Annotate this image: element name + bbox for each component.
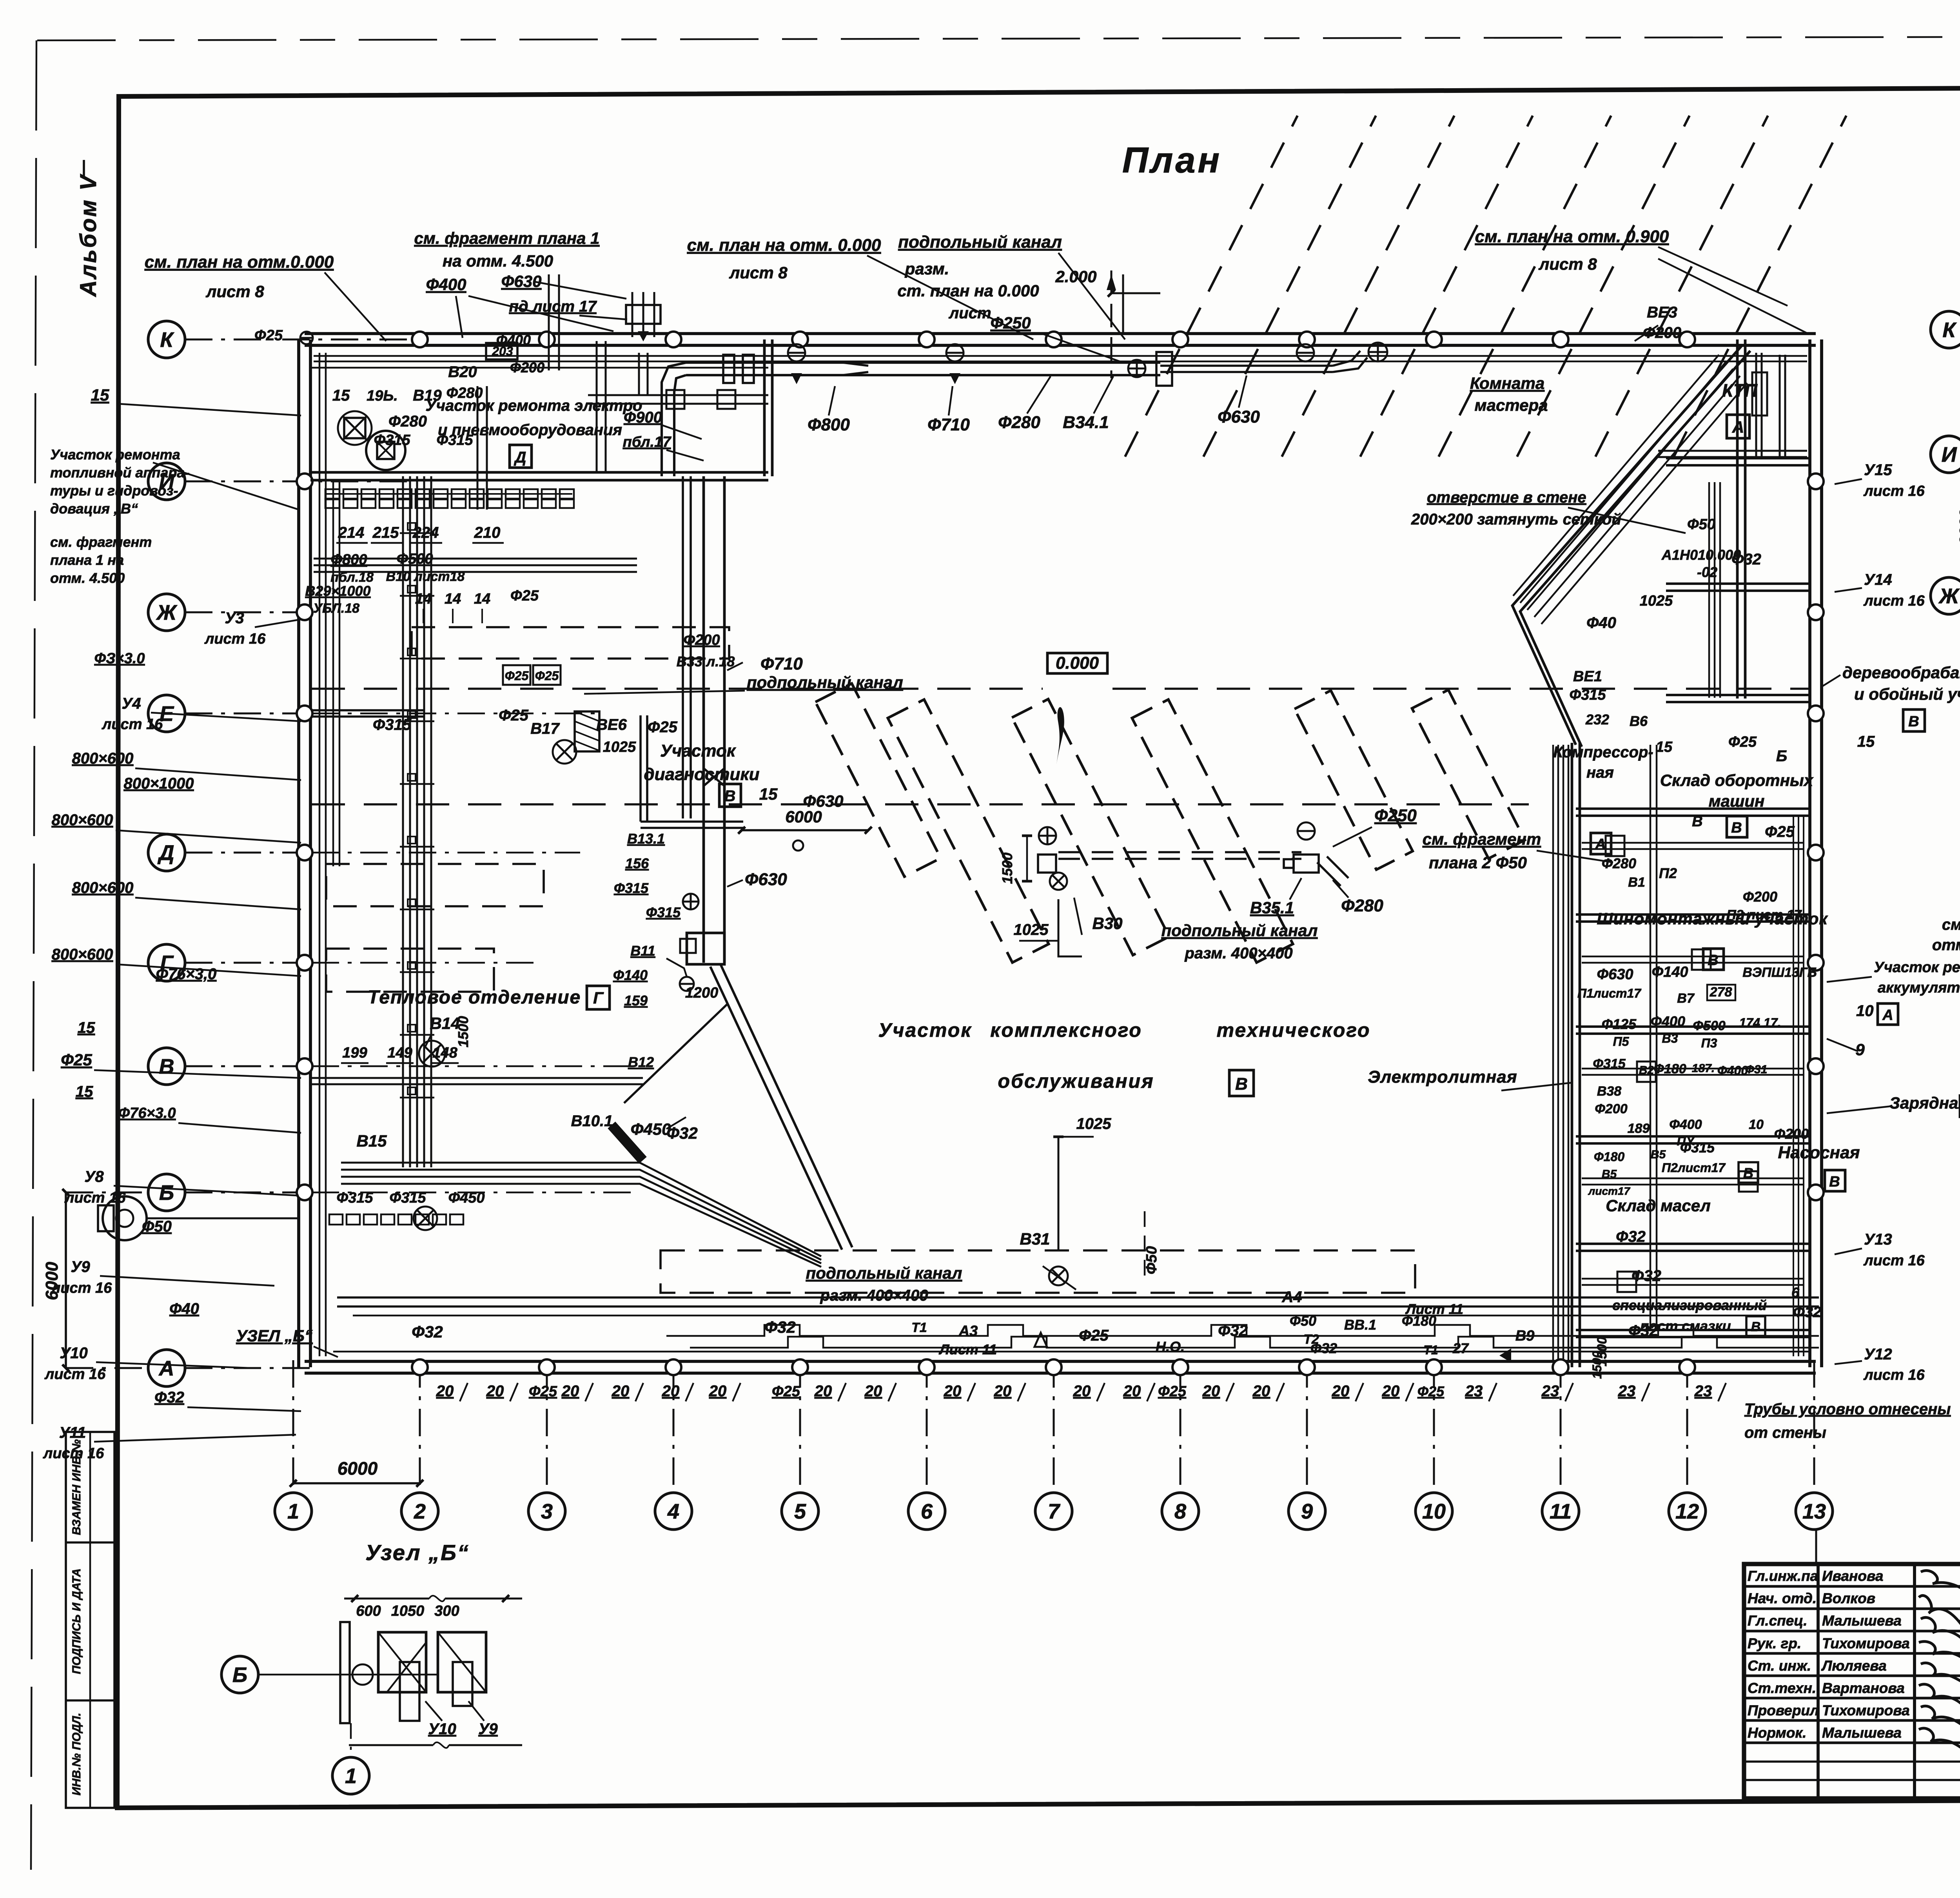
svg-text:В31: В31 [1020, 1230, 1050, 1248]
svg-text:У9: У9 [478, 1720, 498, 1738]
svg-text:2.000: 2.000 [1055, 267, 1096, 286]
svg-text:10: 10 [1422, 1500, 1446, 1523]
svg-text:Ф25: Ф25 [648, 719, 677, 736]
svg-text:Ф180: Ф180 [1594, 1150, 1625, 1164]
svg-text:подпольный канал: подпольный канал [806, 1264, 962, 1282]
svg-text:лист 16: лист 16 [44, 1366, 106, 1383]
svg-text:Ф140: Ф140 [1651, 964, 1688, 980]
svg-text:Ф315: Ф315 [373, 716, 412, 733]
svg-text:13: 13 [1802, 1500, 1826, 1523]
svg-text:лист: лист [948, 305, 991, 322]
svg-text:Б: Б [1776, 748, 1787, 765]
svg-text:20: 20 [1073, 1383, 1091, 1400]
svg-text:Ф50: Ф50 [1290, 1313, 1316, 1329]
svg-text:Ф25: Ф25 [535, 669, 559, 683]
svg-text:11: 11 [1550, 1500, 1572, 1523]
svg-text:6000: 6000 [785, 807, 822, 826]
svg-text:9: 9 [1855, 1040, 1865, 1059]
svg-text:специализированный: специализированный [1612, 1297, 1767, 1313]
svg-text:П2 лист 17: П2 лист 17 [1726, 907, 1802, 922]
svg-text:Б: Б [232, 1663, 247, 1687]
svg-text:Ф800: Ф800 [808, 415, 850, 434]
svg-text:Ф400: Ф400 [1717, 1063, 1748, 1078]
svg-text:Гл.инж.па: Гл.инж.па [1748, 1568, 1818, 1584]
svg-text:лист17: лист17 [1588, 1185, 1631, 1197]
svg-text:лист 16: лист 16 [1863, 1367, 1925, 1383]
svg-text:лист 8: лист 8 [1538, 255, 1597, 273]
svg-text:А: А [158, 1357, 174, 1380]
svg-text:Ф400: Ф400 [1669, 1117, 1702, 1132]
svg-text:В11: В11 [630, 943, 655, 959]
svg-text:В38: В38 [1597, 1084, 1621, 1099]
svg-text:В: В [1731, 820, 1742, 836]
svg-text:Ф630: Ф630 [745, 870, 787, 889]
svg-text:см. фрагмент: см. фрагмент [1423, 830, 1541, 848]
svg-text:-02: -02 [1697, 564, 1717, 580]
svg-text:Тепловое отделение: Тепловое отделение [368, 987, 581, 1008]
svg-text:УЗЕЛ „Б“: УЗЕЛ „Б“ [236, 1326, 313, 1345]
svg-text:Малышева: Малышева [1822, 1613, 1902, 1629]
svg-text:лист 16: лист 16 [1863, 1252, 1925, 1269]
svg-text:У9: У9 [71, 1258, 90, 1276]
svg-text:300: 300 [434, 1603, 459, 1619]
svg-text:20: 20 [561, 1383, 579, 1400]
svg-text:У15: У15 [1864, 461, 1892, 479]
svg-text:214: 214 [338, 524, 365, 541]
svg-text:Ф400: Ф400 [1651, 1013, 1685, 1029]
svg-text:Ф900: Ф900 [624, 409, 662, 426]
svg-text:П2: П2 [1659, 865, 1677, 881]
svg-text:деревообрабатывающий: деревообрабатывающий [1842, 663, 1960, 682]
svg-text:Компрессор-: Компрессор- [1553, 744, 1653, 761]
svg-text:1025: 1025 [603, 739, 636, 755]
svg-text:подпольный канал: подпольный канал [747, 673, 903, 691]
svg-text:В: В [1235, 1074, 1248, 1094]
svg-text:20: 20 [486, 1383, 504, 1400]
svg-text:Ф400: Ф400 [426, 275, 466, 294]
svg-text:Насосная: Насосная [1778, 1143, 1860, 1162]
svg-text:159: 159 [624, 993, 648, 1009]
svg-text:диагностики: диагностики [644, 765, 759, 784]
svg-text:В19: В19 [413, 387, 442, 404]
svg-text:ПОДПИСЬ И ДАТА: ПОДПИСЬ И ДАТА [70, 1568, 83, 1674]
svg-text:В13.1: В13.1 [627, 831, 665, 847]
svg-text:Б: Б [159, 1181, 174, 1205]
svg-text:В34.1: В34.1 [1063, 413, 1109, 432]
svg-text:0.000: 0.000 [1056, 653, 1099, 673]
svg-text:от стены: от стены [1744, 1424, 1826, 1441]
svg-text:215: 215 [372, 524, 399, 541]
svg-text:278: 278 [1710, 985, 1732, 1000]
svg-text:15: 15 [76, 1083, 93, 1100]
svg-text:Ст. инж.: Ст. инж. [1748, 1658, 1811, 1674]
svg-text:19Ь.: 19Ь. [367, 388, 398, 404]
svg-text:20: 20 [1202, 1383, 1220, 1400]
svg-text:ВЕ1: ВЕ1 [1573, 668, 1602, 685]
svg-text:1025: 1025 [1640, 593, 1673, 609]
svg-text:800×600: 800×600 [72, 750, 134, 767]
svg-text:Ф76×3,0: Ф76×3,0 [156, 965, 217, 983]
svg-text:1: 1 [287, 1500, 299, 1523]
svg-text:В10.1: В10.1 [571, 1112, 613, 1130]
svg-text:800×600: 800×600 [72, 879, 134, 896]
svg-text:Ф630: Ф630 [803, 792, 844, 810]
svg-text:800×600: 800×600 [52, 946, 113, 963]
svg-text:подпольный канал: подпольный канал [898, 232, 1062, 252]
svg-text:отм. 4.500: отм. 4.500 [50, 570, 125, 586]
svg-text:1025: 1025 [1014, 921, 1049, 938]
svg-text:Зарядная: Зарядная [1889, 1094, 1960, 1112]
svg-text:14: 14 [474, 591, 490, 607]
svg-text:В9: В9 [1515, 1328, 1535, 1344]
svg-text:Ф280: Ф280 [446, 385, 483, 401]
svg-text:Ф50: Ф50 [1687, 516, 1715, 533]
svg-text:технического: технического [1217, 1019, 1371, 1041]
svg-text:на отм. 4.500: на отм. 4.500 [443, 252, 553, 270]
svg-text:лист 8: лист 8 [205, 282, 264, 301]
svg-text:20: 20 [1382, 1383, 1400, 1400]
svg-text:К: К [1942, 318, 1957, 342]
svg-text:В2: В2 [1639, 1064, 1654, 1077]
svg-text:1025: 1025 [1076, 1115, 1112, 1132]
svg-text:см. план на отм. 0.000: см. план на отм. 0.000 [687, 236, 881, 255]
svg-text:6000: 6000 [338, 1458, 378, 1479]
svg-text:2: 2 [414, 1500, 426, 1523]
svg-text:разм. 400×400: разм. 400×400 [820, 1287, 928, 1304]
svg-text:199: 199 [342, 1045, 367, 1061]
svg-text:В30: В30 [1092, 914, 1122, 933]
svg-text:Т1: Т1 [911, 1320, 927, 1335]
svg-text:3: 3 [541, 1500, 553, 1523]
svg-text:Трубы условно отнесены: Трубы условно отнесены [1744, 1401, 1951, 1418]
svg-text:В: В [1692, 813, 1702, 830]
svg-text:Ф25: Ф25 [510, 588, 539, 604]
svg-text:Ф32: Ф32 [154, 1389, 184, 1406]
svg-text:В15: В15 [356, 1132, 387, 1150]
svg-text:Ф25: Ф25 [499, 707, 528, 724]
svg-text:Ф40: Ф40 [169, 1300, 199, 1317]
svg-text:отверстие в стене: отверстие в стене [1427, 489, 1586, 506]
svg-text:Альбом V: Альбом V [76, 174, 101, 298]
svg-text:Лист 11: Лист 11 [938, 1341, 997, 1357]
svg-text:лист 16: лист 16 [1863, 483, 1925, 499]
svg-text:Гл.спец.: Гл.спец. [1748, 1613, 1808, 1629]
svg-text:Ж: Ж [1938, 584, 1960, 608]
svg-text:Ф315: Ф315 [646, 904, 681, 920]
svg-text:1050: 1050 [391, 1603, 425, 1619]
svg-text:Ф180: Ф180 [1402, 1313, 1436, 1329]
svg-text:600: 600 [356, 1603, 381, 1619]
svg-text:комплексного: комплексного [990, 1019, 1142, 1041]
svg-text:Рук. гр.: Рук. гр. [1748, 1635, 1801, 1651]
svg-text:плана 2 Ф50: плана 2 Ф50 [1429, 853, 1527, 872]
svg-text:Ф25: Ф25 [1158, 1383, 1187, 1400]
svg-text:отм. 0.000 Ф50: отм. 0.000 Ф50 [1932, 936, 1960, 954]
svg-text:П3: П3 [1701, 1036, 1717, 1050]
svg-text:ВВ.1: ВВ.1 [1344, 1317, 1376, 1333]
svg-text:лист 16: лист 16 [1863, 593, 1925, 609]
svg-text:Участок ремонта: Участок ремонта [1874, 959, 1960, 976]
svg-text:1200: 1200 [685, 985, 719, 1001]
svg-text:Ф280: Ф280 [388, 413, 427, 430]
svg-text:1: 1 [345, 1764, 357, 1788]
svg-text:6: 6 [921, 1500, 933, 1523]
svg-text:Вартанова: Вартанова [1822, 1680, 1905, 1696]
svg-text:20: 20 [1123, 1383, 1141, 1400]
svg-text:8: 8 [1174, 1500, 1186, 1523]
svg-text:Ф315: Ф315 [436, 432, 473, 448]
svg-text:149: 149 [387, 1045, 412, 1061]
svg-text:обслуживания: обслуживания [998, 1070, 1154, 1092]
svg-text:см. фрагмент плана 1: см. фрагмент плана 1 [414, 229, 599, 247]
svg-text:23: 23 [1465, 1383, 1483, 1400]
svg-text:В: В [159, 1055, 174, 1078]
svg-text:подпольный канал: подпольный канал [1161, 921, 1318, 940]
svg-text:1500: 1500 [999, 853, 1015, 884]
svg-text:Т1: Т1 [1423, 1343, 1438, 1357]
svg-text:довация „В“: довация „В“ [50, 501, 138, 517]
svg-text:В17: В17 [530, 720, 560, 737]
svg-text:А: А [1882, 1007, 1893, 1023]
svg-text:У11: У11 [59, 1424, 86, 1441]
svg-text:А4: А4 [1281, 1288, 1302, 1306]
svg-text:Ф315: Ф315 [389, 1190, 426, 1206]
svg-text:В35.1: В35.1 [1250, 898, 1294, 917]
svg-text:и обойный участка: и обойный участка [1854, 685, 1960, 703]
svg-text:Ф200: Ф200 [1743, 889, 1777, 905]
svg-text:К: К [160, 328, 174, 352]
svg-text:20: 20 [612, 1383, 630, 1400]
svg-text:мастера: мастера [1475, 396, 1548, 414]
svg-text:В29×1000: В29×1000 [305, 583, 370, 599]
svg-text:20: 20 [662, 1383, 680, 1400]
svg-text:У14: У14 [1864, 571, 1892, 588]
svg-text:Д: Д [514, 449, 526, 466]
svg-text:П2лист17: П2лист17 [1662, 1161, 1726, 1175]
svg-text:23: 23 [1618, 1383, 1636, 1400]
svg-text:Д: Д [158, 841, 174, 865]
svg-text:15: 15 [332, 387, 350, 404]
svg-text:Ф315: Ф315 [614, 880, 649, 896]
svg-text:А: А [1732, 418, 1744, 436]
svg-text:Ф25: Ф25 [1728, 734, 1757, 750]
svg-text:ВЭПШ13ГБ: ВЭПШ13ГБ [1742, 965, 1817, 980]
svg-text:Ф500: Ф500 [1693, 1018, 1725, 1033]
svg-text:27: 27 [1452, 1340, 1469, 1356]
svg-text:Ф25: Ф25 [772, 1383, 800, 1400]
svg-text:7: 7 [1048, 1500, 1061, 1523]
svg-text:148: 148 [432, 1045, 457, 1061]
svg-text:плана 1 на: плана 1 на [50, 552, 124, 568]
svg-text:Нормок.: Нормок. [1748, 1725, 1806, 1741]
svg-text:14: 14 [415, 591, 432, 607]
svg-text:Малышева: Малышева [1822, 1725, 1902, 1741]
svg-text:В10 лист18: В10 лист18 [386, 569, 465, 584]
svg-text:15: 15 [1656, 739, 1673, 755]
svg-text:Ф25: Ф25 [1079, 1327, 1109, 1344]
svg-text:Люляева: Люляева [1821, 1658, 1887, 1674]
svg-text:В5: В5 [1602, 1168, 1617, 1181]
svg-text:Тихомирова: Тихомирова [1822, 1702, 1910, 1718]
svg-text:ИНВ.№ ПОДЛ.: ИНВ.№ ПОДЛ. [70, 1713, 83, 1795]
svg-text:Участок ремонта: Участок ремонта [50, 446, 180, 463]
svg-text:машин: машин [1709, 792, 1765, 810]
svg-text:Ст.техн.: Ст.техн. [1748, 1680, 1816, 1696]
svg-text:лист 16: лист 16 [43, 1445, 104, 1462]
svg-text:210: 210 [474, 524, 501, 541]
svg-text:Ф280: Ф280 [1341, 896, 1383, 915]
svg-text:15: 15 [759, 785, 778, 803]
svg-text:ВЕ3: ВЕ3 [1647, 304, 1677, 321]
svg-text:Склад масел: Склад масел [1606, 1196, 1711, 1215]
svg-text:20: 20 [814, 1383, 832, 1400]
svg-text:Нач. отд.: Нач. отд. [1748, 1590, 1817, 1606]
svg-text:И: И [1942, 443, 1957, 466]
svg-text:см. план на отм. 0.900: см. план на отм. 0.900 [1475, 227, 1669, 246]
svg-text:В12: В12 [628, 1054, 654, 1070]
svg-text:П1лист17: П1лист17 [1577, 986, 1642, 1000]
svg-text:Ф200: Ф200 [683, 632, 720, 648]
svg-text:187.: 187. [1692, 1062, 1715, 1075]
svg-text:Ф76×3.0: Ф76×3.0 [118, 1105, 176, 1121]
svg-text:В20: В20 [448, 363, 477, 381]
svg-text:В: В [1751, 1319, 1761, 1334]
svg-text:156: 156 [625, 855, 649, 871]
svg-text:Ф50: Ф50 [1143, 1246, 1160, 1274]
svg-text:Ф40: Ф40 [1586, 614, 1616, 631]
svg-text:У10: У10 [428, 1720, 456, 1738]
svg-text:П5: П5 [1613, 1034, 1630, 1049]
svg-text:пбл.17: пбл.17 [623, 434, 672, 450]
svg-text:ная: ная [1586, 764, 1614, 781]
svg-text:Проверил: Проверил [1748, 1702, 1819, 1718]
svg-text:аккумуляторов: аккумуляторов [1878, 980, 1960, 996]
svg-text:Ф450: Ф450 [631, 1120, 671, 1138]
svg-text:Ф32: Ф32 [764, 1318, 796, 1336]
svg-text:План: План [1122, 140, 1222, 180]
svg-text:1500: 1500 [455, 1016, 471, 1047]
svg-text:В: В [1708, 952, 1718, 969]
svg-text:Г: Г [593, 989, 604, 1007]
svg-text:Комната: Комната [1470, 374, 1544, 392]
svg-text:Ф25: Ф25 [529, 1383, 557, 1400]
svg-text:ФЗ×3.0: ФЗ×3.0 [94, 650, 145, 667]
svg-text:Участок: Участок [878, 1019, 972, 1041]
svg-text:Узел „Б“: Узел „Б“ [365, 1540, 470, 1565]
svg-text:В5: В5 [1651, 1148, 1666, 1161]
svg-text:Ф250: Ф250 [1374, 806, 1417, 825]
svg-text:Ф25: Ф25 [1765, 823, 1795, 840]
svg-text:4: 4 [667, 1500, 679, 1523]
svg-text:15: 15 [1857, 733, 1875, 750]
svg-text:Ф450: Ф450 [448, 1190, 485, 1206]
svg-text:Ф280: Ф280 [998, 413, 1040, 432]
svg-text:800×1000: 800×1000 [123, 775, 194, 792]
svg-text:А: А [1595, 836, 1606, 853]
svg-text:лист 16: лист 16 [51, 1280, 112, 1296]
svg-text:У10: У10 [60, 1345, 88, 1362]
svg-text:разм.: разм. [905, 259, 949, 278]
svg-text:Склад оборотных: Склад оборотных [1660, 771, 1814, 789]
svg-text:ПУ: ПУ [1677, 1134, 1695, 1148]
svg-text:9: 9 [1301, 1500, 1313, 1523]
svg-text:Ф25: Ф25 [505, 669, 529, 683]
svg-text:А3: А3 [958, 1323, 978, 1339]
svg-text:В: В [1743, 1165, 1753, 1181]
svg-text:Ф180: Ф180 [1653, 1062, 1686, 1076]
svg-text:Тихомирова: Тихомирова [1822, 1635, 1910, 1651]
svg-text:15: 15 [78, 1019, 95, 1036]
svg-text:У13: У13 [1864, 1231, 1892, 1248]
svg-text:189: 189 [1628, 1121, 1650, 1136]
svg-text:В33 л.18: В33 л.18 [677, 653, 735, 670]
svg-text:Ф32: Ф32 [1632, 1267, 1661, 1285]
svg-text:Ф125: Ф125 [1602, 1016, 1637, 1032]
svg-text:туры и гидровоз-: туры и гидровоз- [50, 483, 178, 499]
svg-text:Ф25: Ф25 [1417, 1383, 1445, 1399]
svg-text:Ф25: Ф25 [61, 1051, 92, 1069]
svg-text:ВЕ6: ВЕ6 [596, 716, 627, 733]
svg-text:10: 10 [1749, 1117, 1764, 1132]
svg-text:Ф315: Ф315 [374, 432, 410, 448]
svg-text:Ф140: Ф140 [613, 967, 648, 983]
svg-text:Ф710: Ф710 [927, 415, 970, 434]
svg-text:Ф250: Ф250 [991, 314, 1031, 332]
svg-text:Ф315: Ф315 [1593, 1056, 1626, 1071]
svg-text:232: 232 [1585, 711, 1609, 728]
svg-text:Ф280: Ф280 [1602, 855, 1636, 871]
svg-text:800×600: 800×600 [52, 811, 113, 829]
svg-text:23: 23 [1541, 1383, 1559, 1400]
svg-text:Ф630: Ф630 [1218, 407, 1260, 426]
svg-text:Ф500: Ф500 [396, 551, 433, 567]
svg-text:В: В [1908, 713, 1919, 730]
svg-text:см. план на отм.0.000: см. план на отм.0.000 [145, 252, 334, 272]
svg-text:20: 20 [436, 1383, 454, 1400]
svg-text:лист 16: лист 16 [204, 631, 266, 647]
svg-text:20: 20 [864, 1383, 882, 1400]
svg-text:Ф800: Ф800 [330, 552, 367, 568]
svg-text:пд лист 17: пд лист 17 [509, 298, 597, 315]
svg-text:лист 8: лист 8 [729, 263, 788, 282]
svg-text:В3: В3 [1662, 1031, 1678, 1045]
svg-text:20: 20 [1252, 1383, 1270, 1400]
svg-text:У4: У4 [122, 695, 141, 712]
svg-text:Ж: Ж [156, 601, 178, 624]
svg-text:14: 14 [445, 591, 461, 607]
svg-text:Ф32: Ф32 [1628, 1322, 1658, 1339]
svg-text:У8: У8 [84, 1168, 104, 1185]
svg-text:см. фрагмент: см. фрагмент [50, 534, 152, 550]
svg-text:10: 10 [1856, 1002, 1874, 1020]
svg-text:Ф315: Ф315 [336, 1190, 373, 1206]
svg-text:200×200 затянуть сеткой: 200×200 затянуть сеткой [1411, 511, 1621, 528]
svg-text:Ф25: Ф25 [254, 327, 283, 344]
svg-text:У3: У3 [225, 610, 244, 627]
svg-text:КТП: КТП [1722, 380, 1758, 401]
svg-text:Участок: Участок [660, 741, 737, 760]
svg-text:Иванова: Иванова [1822, 1568, 1883, 1584]
svg-text:20: 20 [709, 1383, 727, 1400]
svg-text:6000: 6000 [1956, 509, 1960, 545]
svg-text:174 17.: 174 17. [1739, 1016, 1781, 1030]
svg-text:Ф32: Ф32 [1310, 1340, 1337, 1356]
svg-text:А1Н010.000: А1Н010.000 [1661, 547, 1741, 563]
svg-text:разм. 400×400: разм. 400×400 [1184, 945, 1292, 962]
svg-text:Ф710: Ф710 [760, 654, 803, 673]
svg-text:В: В [724, 788, 736, 805]
svg-text:У12: У12 [1864, 1346, 1892, 1363]
